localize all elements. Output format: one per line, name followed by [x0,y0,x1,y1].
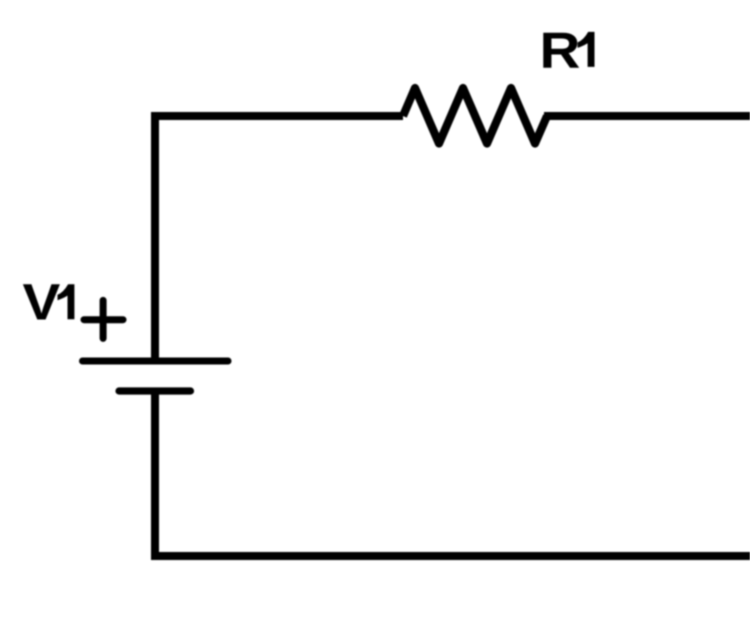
svg-text:R: R [540,22,581,79]
svg-text:V: V [23,274,61,331]
